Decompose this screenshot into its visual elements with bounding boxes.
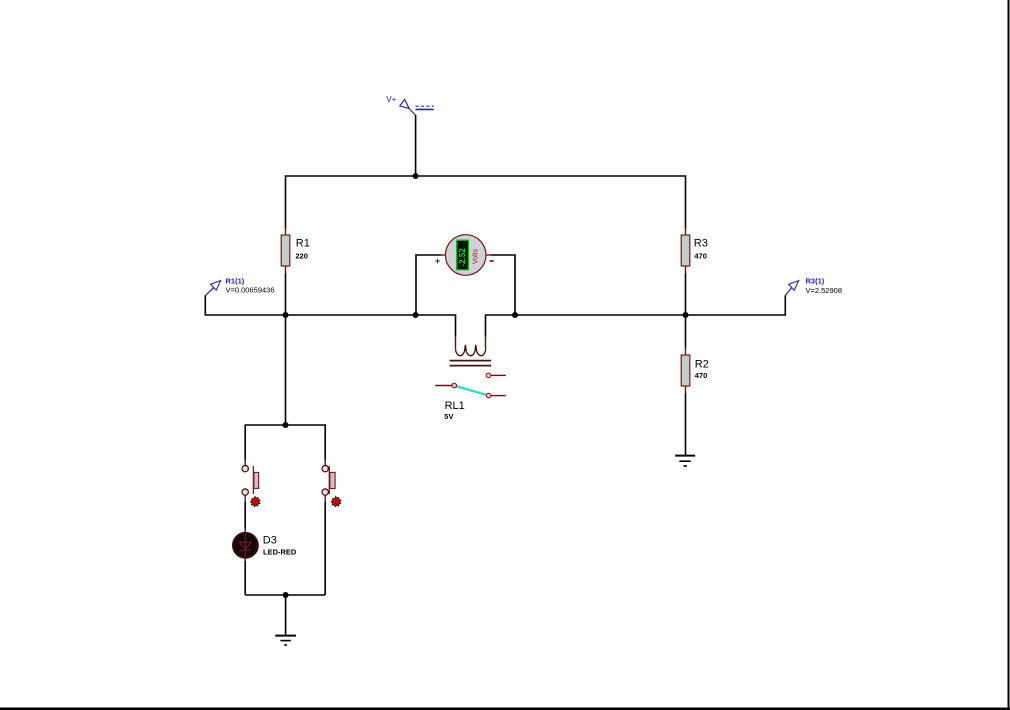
LED D3 bbox=[233, 528, 257, 562]
svg-text:LED-RED: LED-RED bbox=[263, 548, 297, 557]
wire: subcircuit top loop bbox=[245, 425, 325, 460]
junction: mid bus / voltmeter left lead bbox=[413, 312, 419, 318]
wire: R3 to mid bus bbox=[685, 274, 687, 316]
RL1 switch NC lead bbox=[491, 374, 506, 376]
ground (left, below LED subcircuit) bbox=[275, 636, 296, 645]
svg-text:220: 220 bbox=[295, 252, 308, 261]
left button actuation marker bbox=[250, 497, 260, 507]
RL1 switch lever (cyan) bbox=[457, 386, 487, 395]
junction: subcircuit bottom / ground branch bbox=[283, 592, 289, 598]
ground (right, below R2) bbox=[675, 456, 695, 466]
resistor R2 bbox=[681, 347, 690, 394]
wire: mid bus to LED subcircuit bbox=[285, 315, 287, 425]
mid bus wire (right segment, relay coil right to probe corner) bbox=[486, 295, 786, 336]
svg-text:470: 470 bbox=[695, 371, 708, 380]
RL1 core bbox=[450, 361, 492, 366]
svg-text:R1(1): R1(1) bbox=[226, 276, 245, 285]
wire: left button to LED D3 bbox=[244, 502, 246, 530]
wire: R2 to ground bbox=[685, 394, 687, 456]
RL1 switch NC terminal bbox=[486, 373, 491, 378]
svg-text:R2: R2 bbox=[695, 359, 709, 371]
svg-text:V+: V+ bbox=[386, 95, 396, 104]
junction: mid bus / R1 branch bbox=[283, 312, 289, 318]
voltmeter bbox=[416, 235, 515, 315]
wire: right button down to bottom loop bbox=[324, 502, 326, 595]
svg-text:5V: 5V bbox=[444, 412, 453, 421]
junction: V+ wire and top bus bbox=[413, 173, 419, 179]
wire: LED D3 to subcircuit bottom loop bbox=[244, 561, 246, 595]
wire: V+ terminal to top bus bbox=[415, 115, 417, 176]
svg-text:R3: R3 bbox=[694, 238, 708, 250]
voltage probe R1(1) bbox=[206, 276, 275, 295]
wire: mid bus to R2 bbox=[685, 315, 687, 348]
RL1 switch common terminal bbox=[452, 383, 457, 388]
resistor R3 bbox=[681, 227, 690, 274]
wire: subcircuit bottom loop bbox=[245, 594, 325, 596]
RL1 switch NO terminal bbox=[486, 393, 491, 398]
right button actuation marker bbox=[331, 497, 341, 507]
voltage probe R3(1) bbox=[785, 276, 842, 295]
push button (right) bbox=[322, 459, 341, 507]
svg-text:R1: R1 bbox=[296, 238, 310, 250]
power terminal V+ bbox=[386, 95, 434, 115]
svg-text:V=0.00659436: V=0.00659436 bbox=[226, 285, 275, 294]
RL1 switch common lead bbox=[435, 385, 452, 387]
svg-text:RL1: RL1 bbox=[445, 400, 465, 412]
RL1 switch NO lead bbox=[491, 395, 506, 397]
junction: mid bus / voltmeter right lead bbox=[512, 312, 518, 318]
svg-text:-2.52: -2.52 bbox=[458, 248, 467, 267]
wire: bottom loop to ground bbox=[285, 595, 287, 635]
svg-text:V=2.52908: V=2.52908 bbox=[806, 286, 843, 295]
svg-text:Volts: Volts bbox=[473, 248, 480, 264]
top bus wire bbox=[286, 176, 686, 229]
relay RL1 bbox=[435, 336, 506, 398]
wire: R1 to mid bus bbox=[285, 274, 287, 316]
svg-text:470: 470 bbox=[694, 252, 707, 261]
junction: mid bus / R3-R2 branch bbox=[683, 312, 689, 318]
mid bus wire (left segment, probe corner to relay coil left) bbox=[205, 295, 455, 336]
RL1 coil bbox=[456, 345, 486, 356]
svg-text:D3: D3 bbox=[263, 534, 277, 546]
RL1 coil leads bbox=[456, 336, 486, 348]
svg-text:R3(1): R3(1) bbox=[806, 276, 825, 285]
svg-text:+: + bbox=[435, 256, 441, 267]
junction: subcircuit top bbox=[283, 422, 289, 428]
resistor R1 bbox=[281, 227, 290, 274]
push button (left) bbox=[242, 459, 260, 507]
